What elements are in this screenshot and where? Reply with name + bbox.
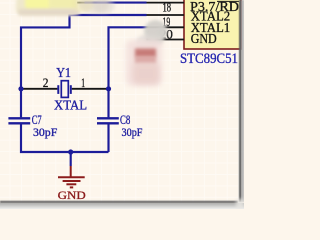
node junction right xyxy=(106,86,111,91)
node junction bottom xyxy=(68,149,73,154)
wire crystal right to C8 xyxy=(107,89,109,118)
wire C8 down xyxy=(107,124,109,152)
svg-text:30pF: 30pF xyxy=(33,125,58,139)
node junction left xyxy=(18,86,23,91)
svg-text:Y1: Y1 xyxy=(56,66,71,81)
svg-text:STC89C51: STC89C51 xyxy=(180,51,238,67)
ground bar 2 xyxy=(63,180,81,182)
crystal Y1 body xyxy=(61,81,68,98)
pin 18 stub xyxy=(147,14,185,16)
crystal Y1 pin 2 xyxy=(21,88,57,90)
svg-text:18: 18 xyxy=(163,1,172,15)
svg-text:1: 1 xyxy=(81,75,85,90)
pin 20 stub xyxy=(147,39,185,41)
capacitor C8 bottom plate xyxy=(97,122,119,124)
capacitor C7 bottom plate xyxy=(8,122,30,124)
svg-text:GND: GND xyxy=(191,31,217,46)
svg-text:GND: GND xyxy=(58,188,86,202)
pin 17 stub xyxy=(147,2,185,4)
wire net XTAL1 xyxy=(109,27,147,89)
ground bar 1 xyxy=(58,176,85,178)
wire C7 down and bottom rail xyxy=(21,124,109,152)
svg-text:30pF: 30pF xyxy=(122,125,143,139)
wire to ground blue part xyxy=(70,152,72,166)
svg-text:XTAL: XTAL xyxy=(54,97,87,112)
capacitor C8 top plate xyxy=(97,117,119,119)
wire net XTAL2 xyxy=(21,15,147,89)
svg-text:2: 2 xyxy=(43,75,49,90)
IC U1 STC89C51 body xyxy=(184,0,241,49)
wire net P3.7 xyxy=(85,2,147,4)
pin 19 stub xyxy=(147,26,185,28)
crystal Y1 left plate xyxy=(57,85,59,94)
crystal Y1 right plate xyxy=(70,85,72,94)
crystal Y1 pin 1 xyxy=(72,88,109,90)
overline over RD xyxy=(217,0,239,2)
ground bar 4 xyxy=(70,186,73,188)
ground bar 3 xyxy=(66,183,76,185)
hidden component pin stub xyxy=(77,2,85,4)
capacitor C7 top plate xyxy=(8,117,30,119)
wire crystal left to C7 xyxy=(20,89,22,118)
ground stem xyxy=(70,166,72,177)
